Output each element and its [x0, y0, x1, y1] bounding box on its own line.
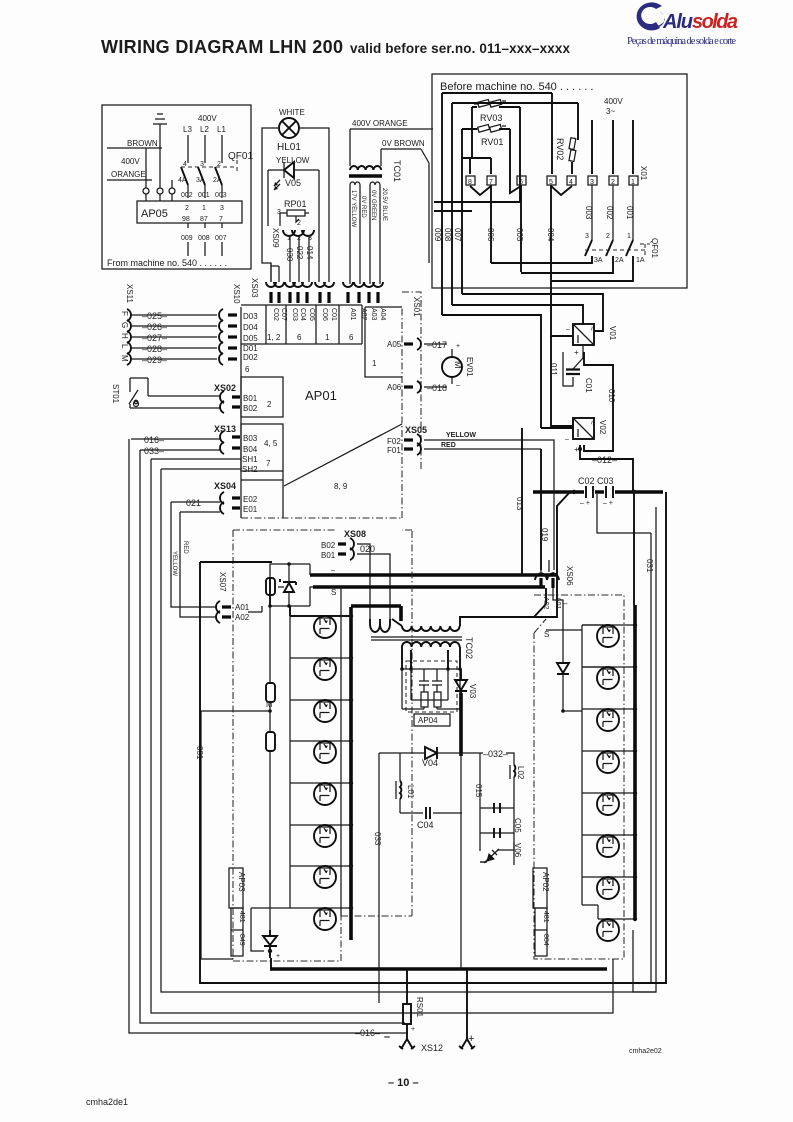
- wire SH2: [161, 468, 241, 470]
- svg-text:BROWN: BROWN: [127, 139, 158, 148]
- wire diode to bottom bus: [270, 958, 272, 969]
- svg-text:S: S: [544, 630, 549, 639]
- svg-text:B02: B02: [321, 541, 336, 550]
- svg-text:014: 014: [305, 246, 314, 260]
- svg-text:0V RED: 0V RED: [360, 196, 366, 218]
- svg-text:SH1: SH1: [242, 455, 258, 464]
- svg-text:3A: 3A: [196, 177, 205, 184]
- svg-text:4A: 4A: [178, 177, 187, 184]
- svg-text:B02: B02: [243, 404, 258, 413]
- svg-text:–032–: –032–: [483, 749, 508, 759]
- svg-text:481: 481: [542, 911, 549, 923]
- svg-text:–: –: [331, 567, 335, 574]
- svg-text:XS13: XS13: [214, 424, 236, 434]
- svg-text:D03: D03: [243, 312, 258, 321]
- svg-text:010: 010: [607, 389, 616, 403]
- svg-text:V04: V04: [422, 758, 438, 768]
- wire E01: [180, 511, 220, 513]
- svg-text:A01: A01: [349, 308, 356, 321]
- svg-text:TC01: TC01: [392, 160, 402, 182]
- svg-text:C06: C06: [321, 308, 328, 321]
- svg-text:1: 1: [372, 359, 377, 368]
- svg-text:022: 022: [295, 246, 304, 260]
- svg-text:001: 001: [198, 192, 210, 199]
- svg-text:XS08: XS08: [344, 529, 366, 539]
- zener diode: [280, 579, 296, 585]
- wires V05 box: [268, 170, 319, 282]
- svg-text:7: 7: [219, 216, 223, 223]
- svg-text:RED: RED: [441, 442, 456, 449]
- svg-text:V06: V06: [513, 843, 522, 858]
- wire 033 loop: [140, 450, 405, 1023]
- svg-text:cmha2de1: cmha2de1: [86, 1097, 128, 1107]
- svg-text:033: 033: [373, 832, 382, 846]
- svg-text:~: ~: [587, 420, 596, 425]
- inductor L02: [514, 765, 515, 777]
- svg-text:1, 2: 1, 2: [267, 333, 281, 342]
- svg-text:4, 5: 4, 5: [264, 439, 278, 448]
- svg-text:3: 3: [590, 179, 594, 186]
- top edge: [241, 305, 402, 307]
- wire 009 to V02: [442, 315, 573, 428]
- primary winding: [402, 626, 460, 631]
- svg-text:3: 3: [220, 205, 224, 212]
- svg-text:–017: –017: [427, 340, 447, 350]
- transistor rows: [582, 625, 635, 919]
- svg-text:006: 006: [486, 228, 495, 242]
- wire QF 2A: [521, 256, 613, 273]
- svg-text:From machine no. 540 . . . .: From machine no. 540 . . . . . .: [107, 258, 227, 268]
- varistor RV01: [474, 125, 506, 133]
- wire QF 3A: [491, 256, 592, 263]
- svg-text:+: +: [456, 343, 460, 350]
- transistor V group right: [597, 625, 619, 647]
- box frame: [102, 105, 251, 269]
- svg-text:002: 002: [181, 192, 193, 199]
- bus bar: [633, 605, 637, 920]
- svg-text:AP04: AP04: [418, 716, 438, 725]
- svg-text:XS11: XS11: [125, 284, 134, 304]
- svg-text:005: 005: [515, 228, 524, 242]
- svg-text:–: –: [566, 326, 570, 333]
- wire 008: [451, 103, 453, 305]
- svg-text:X01: X01: [639, 166, 648, 181]
- transistor rows: [251, 614, 353, 910]
- svg-text:1: 1: [202, 205, 206, 212]
- svg-text:031: 031: [645, 559, 654, 573]
- diode V03: [455, 669, 477, 756]
- svg-text:YELLOW: YELLOW: [446, 432, 476, 439]
- svg-text:M: M: [120, 355, 129, 362]
- wire 004 down to V01 left: [551, 281, 573, 336]
- svg-text:007: 007: [215, 235, 227, 242]
- svg-text:S: S: [331, 588, 336, 597]
- svg-text:M: M: [453, 361, 463, 369]
- svg-text:–: –: [563, 599, 568, 608]
- svg-text:RV02: RV02: [555, 138, 565, 160]
- svg-text:L2: L2: [200, 125, 209, 134]
- big solid box: [200, 492, 666, 983]
- wire 031 right: [597, 494, 651, 983]
- wire 033 lower: [373, 753, 382, 1003]
- wire 001: [632, 185, 634, 240]
- svg-text:–: –: [456, 382, 460, 389]
- transistor V group: [314, 616, 336, 638]
- svg-text:–029–: –029–: [142, 355, 167, 365]
- resistor chain rail: [269, 595, 271, 934]
- svg-text:400V: 400V: [121, 157, 140, 166]
- svg-text:009: 009: [433, 228, 442, 242]
- svg-text:A05: A05: [387, 340, 402, 349]
- svg-text:L: L: [120, 344, 129, 349]
- svg-text:6: 6: [349, 333, 354, 342]
- svg-text:A04: A04: [379, 308, 386, 321]
- wire 021: [171, 501, 220, 503]
- svg-text:F01: F01: [387, 446, 401, 455]
- svg-text:A03: A03: [370, 308, 377, 321]
- svg-text:QF01: QF01: [228, 151, 253, 162]
- varistor RV03: [474, 100, 506, 108]
- wire 008 to V01 top: [452, 305, 583, 324]
- svg-text:Before machine no. 540 . . .: Before machine no. 540 . . . . . .: [440, 81, 593, 93]
- svg-text:400V: 400V: [198, 114, 217, 123]
- svg-text:1: 1: [631, 179, 635, 186]
- wire red down to XS06: [540, 449, 542, 570]
- svg-text:6: 6: [297, 333, 302, 342]
- resistor: [266, 732, 275, 751]
- bus wire: [533, 490, 663, 494]
- svg-text:3: 3: [585, 233, 589, 240]
- svg-text:V01: V01: [608, 326, 617, 341]
- wire 005: [520, 185, 522, 272]
- svg-text:009: 009: [181, 235, 193, 242]
- svg-text:V03: V03: [468, 684, 477, 699]
- label box AP03: [229, 868, 243, 908]
- svg-text:2: 2: [217, 161, 221, 168]
- svg-text:–025–: –025–: [142, 311, 167, 321]
- svg-text:SH2: SH2: [242, 465, 258, 474]
- svg-text:XS09: XS09: [271, 228, 280, 248]
- svg-text:C05: C05: [308, 308, 315, 321]
- XS03 sub boxes: [241, 305, 362, 344]
- wire orange to pin: [171, 180, 173, 188]
- wire 007: [461, 129, 463, 294]
- wire 022: [298, 236, 300, 282]
- svg-text:F02: F02: [387, 437, 401, 446]
- svg-text:6: 6: [519, 179, 523, 186]
- svg-text:849: 849: [238, 934, 245, 946]
- svg-text:7: 7: [266, 459, 271, 468]
- terminal XS12 plus: [459, 970, 475, 1049]
- svg-text:021: 021: [186, 498, 201, 508]
- svg-text:004: 004: [546, 228, 555, 242]
- svg-text:D02: D02: [243, 353, 258, 362]
- wire lamp right: [299, 128, 329, 282]
- svg-text:L1: L1: [217, 125, 226, 134]
- svg-text:XS06: XS06: [565, 566, 574, 586]
- wire 011: [551, 336, 573, 426]
- svg-text:8, 9: 8, 9: [334, 482, 348, 491]
- svg-text:A02: A02: [360, 308, 367, 321]
- diode bottom: [263, 930, 277, 958]
- svg-text:–027–: –027–: [142, 333, 167, 343]
- svg-text:H: H: [120, 333, 129, 339]
- wire 015: [479, 753, 481, 808]
- svg-text:C04: C04: [299, 308, 306, 321]
- svg-text:XS12: XS12: [421, 1043, 443, 1053]
- svg-text:C01: C01: [330, 308, 337, 321]
- motor EV01: [451, 349, 453, 384]
- svg-text:020: 020: [360, 544, 375, 554]
- svg-text:+: +: [468, 1033, 474, 1045]
- AP01 outline: [240, 307, 242, 518]
- capacitor C04: [400, 807, 462, 830]
- core: [371, 637, 462, 640]
- top link: [270, 578, 351, 616]
- svg-text:2: 2: [297, 220, 301, 227]
- capacitor C03: [606, 486, 613, 498]
- svg-text:M: M: [266, 700, 273, 709]
- svg-text:4: 4: [183, 161, 187, 168]
- svg-text:016–: 016–: [144, 435, 164, 445]
- svg-text:+: +: [574, 348, 579, 357]
- AP05 module box: [137, 201, 242, 223]
- resistor: [434, 692, 441, 707]
- svg-text:XS01: XS01: [412, 297, 421, 317]
- svg-text:003: 003: [215, 192, 227, 199]
- svg-text:V02: V02: [598, 420, 607, 435]
- svg-text:XS04: XS04: [214, 481, 236, 491]
- svg-text:002: 002: [605, 206, 614, 220]
- connector X01 pins: [466, 166, 648, 195]
- primary left loops: [370, 619, 390, 632]
- resistor RS01: [406, 970, 408, 1004]
- svg-text:XS10: XS10: [232, 284, 241, 304]
- svg-text:XS02: XS02: [214, 383, 236, 393]
- svg-text:A06: A06: [387, 383, 402, 392]
- svg-text:C02: C02: [272, 308, 279, 321]
- bus bar: [349, 607, 353, 940]
- secondary winding: [402, 642, 460, 647]
- svg-text:A01: A01: [235, 603, 250, 612]
- wire C02 col: [270, 263, 272, 282]
- svg-text:6: 6: [245, 365, 250, 374]
- svg-text:WHITE: WHITE: [279, 108, 305, 117]
- XS03 jacks top: [266, 282, 383, 287]
- svg-text:TC02: TC02: [464, 637, 474, 659]
- module boundary AP02: [534, 595, 624, 959]
- svg-text:A02: A02: [235, 613, 250, 622]
- capacitor C02: [586, 486, 593, 498]
- svg-text:A02: A02: [542, 597, 549, 610]
- wire SH1: [151, 458, 241, 460]
- diode: [557, 663, 569, 674]
- svg-text:400V ORANGE: 400V ORANGE: [352, 119, 408, 128]
- svg-text:2: 2: [185, 205, 189, 212]
- svg-text:7: 7: [489, 179, 493, 186]
- svg-text:V05: V05: [285, 178, 301, 188]
- svg-text:E02: E02: [243, 495, 258, 504]
- svg-text:AP05: AP05: [141, 208, 168, 220]
- wire 016 loop: [129, 439, 407, 1033]
- TC01 secondary windings: [350, 182, 380, 284]
- svg-text:+: +: [276, 953, 280, 960]
- wire from bus to tc02: [534, 492, 570, 617]
- wire A01 to rail: [248, 606, 262, 612]
- diode V06: [484, 849, 499, 863]
- wire brown to pin: [145, 148, 147, 188]
- svg-text:87: 87: [200, 216, 208, 223]
- svg-text:2A: 2A: [615, 257, 624, 264]
- svg-text:1: 1: [325, 333, 330, 342]
- svg-text:AP01: AP01: [305, 388, 337, 403]
- secondary taps: [402, 647, 460, 669]
- cap: [419, 669, 429, 692]
- svg-text:011: 011: [549, 363, 558, 376]
- wire 002: [612, 185, 614, 240]
- wire lamp left: [262, 128, 279, 282]
- svg-text:– 10 –: – 10 –: [388, 1077, 419, 1089]
- svg-text:HL01: HL01: [277, 142, 301, 153]
- rectifier V01: [573, 324, 594, 345]
- svg-text:3: 3: [200, 161, 204, 168]
- bus to bank right: [633, 494, 635, 605]
- wire bus bottom stub: [633, 930, 656, 992]
- wire 014: [308, 236, 310, 282]
- drive line top: [309, 564, 311, 575]
- svg-text:3A: 3A: [594, 257, 603, 264]
- svg-text:–028–: –028–: [142, 344, 167, 354]
- wire to diode: [553, 588, 563, 663]
- wire 003: [591, 185, 593, 240]
- svg-text:– +: – +: [603, 500, 613, 507]
- wire 009: [441, 93, 443, 315]
- svg-text:B04: B04: [243, 445, 258, 454]
- svg-text:1A: 1A: [636, 257, 645, 264]
- svg-text:B01: B01: [243, 394, 258, 403]
- svg-text:+: +: [411, 1026, 415, 1033]
- wire 007 to V01 right: [462, 294, 603, 331]
- svg-text:013: 013: [515, 497, 524, 511]
- svg-text:– +: – +: [580, 500, 590, 507]
- connector XS01 dashed strip: [402, 292, 421, 470]
- svg-text:XS05: XS05: [405, 425, 427, 435]
- svg-text:3~: 3~: [606, 107, 615, 116]
- svg-text:400V: 400V: [604, 97, 623, 106]
- svg-text:RP01: RP01: [284, 199, 307, 209]
- svg-text:001: 001: [625, 206, 634, 220]
- svg-text:RV01: RV01: [481, 137, 503, 147]
- svg-text:003: 003: [584, 206, 593, 220]
- TC01 primary: [350, 166, 381, 170]
- rectifier V02: [573, 418, 594, 439]
- logo Alusolda: [627, 2, 738, 47]
- wire SH2 loop: [161, 469, 656, 992]
- svg-text:–018: –018: [427, 383, 447, 393]
- diagonal: [284, 424, 402, 486]
- wire bus to TC02 return: [534, 588, 546, 617]
- inductor L01: [396, 753, 415, 813]
- svg-text:cmha2e02: cmha2e02: [629, 1048, 662, 1055]
- svg-text:5: 5: [549, 179, 553, 186]
- svg-text:030: 030: [285, 248, 294, 262]
- svg-text:B03: B03: [243, 434, 258, 443]
- svg-text:0V GREEN: 0V GREEN: [370, 190, 376, 220]
- svg-text:XS07: XS07: [218, 572, 227, 592]
- terminal XS12 minus: [399, 1024, 415, 1049]
- label box AP02: [533, 868, 547, 908]
- svg-text:solda: solda: [692, 11, 738, 33]
- box for 1 region: [365, 307, 402, 377]
- svg-text:EV01: EV01: [465, 357, 474, 377]
- wire source return: [340, 587, 342, 916]
- svg-text:–: –: [565, 436, 569, 443]
- wire 013: [521, 428, 523, 575]
- svg-text:ORANGE: ORANGE: [111, 170, 146, 179]
- svg-text:1: 1: [627, 233, 631, 240]
- wire 012: [580, 445, 633, 492]
- ground: [153, 114, 167, 140]
- svg-text:RED: RED: [182, 541, 188, 554]
- svg-text:008: 008: [198, 235, 210, 242]
- svg-text:D04: D04: [243, 323, 258, 332]
- wire 030: [289, 236, 291, 282]
- svg-text:G: G: [120, 322, 129, 328]
- svg-text:AP03: AP03: [237, 872, 246, 892]
- svg-text:4: 4: [569, 179, 573, 186]
- svg-text:007: 007: [453, 228, 462, 242]
- drive line S: [310, 587, 313, 606]
- svg-text:C04: C04: [417, 820, 434, 830]
- svg-text:–: –: [384, 1031, 390, 1043]
- TC01 core: [349, 174, 382, 178]
- svg-text:C01: C01: [584, 378, 593, 393]
- wire 033: [140, 449, 220, 451]
- bus top to tc02: [351, 606, 401, 621]
- wires RV interconnect: [442, 93, 578, 174]
- gate rail steps: [546, 625, 608, 709]
- varistor RV02: [569, 138, 576, 162]
- svg-text:L01: L01: [406, 785, 415, 799]
- svg-text:008: 008: [443, 228, 452, 242]
- wire 004: [550, 185, 552, 281]
- svg-text:17V YELLOW: 17V YELLOW: [350, 190, 356, 228]
- svg-text:XS03: XS03: [250, 278, 259, 298]
- svg-text:2: 2: [267, 400, 272, 409]
- svg-text:8: 8: [468, 179, 472, 186]
- svg-text:015: 015: [474, 784, 483, 798]
- wire ground to pin: [146, 140, 172, 201]
- diode V04: [379, 747, 461, 969]
- svg-text:D01: D01: [243, 344, 258, 353]
- wire SH1 loop: [151, 459, 613, 1013]
- box wires: [270, 564, 310, 606]
- svg-text:D05: D05: [243, 334, 258, 343]
- svg-text:2: 2: [611, 179, 615, 186]
- wire 016: [131, 438, 220, 440]
- resistor: [266, 683, 275, 702]
- wire XS08 to TC02: [357, 544, 390, 619]
- svg-text:F: F: [120, 311, 129, 316]
- bottom thick bus: [270, 967, 607, 971]
- cap: [432, 669, 442, 692]
- wire M 031 left: [201, 711, 270, 959]
- svg-text:2: 2: [606, 233, 610, 240]
- svg-text:YELLOW: YELLOW: [171, 551, 177, 576]
- XS03 pin stubs: [271, 292, 378, 303]
- svg-text:C05: C05: [513, 818, 522, 833]
- svg-text:RS01: RS01: [415, 997, 424, 1018]
